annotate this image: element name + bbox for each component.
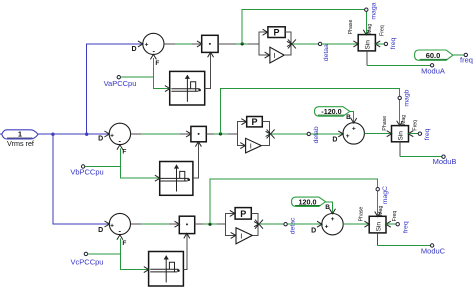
svg-text:+: + — [145, 42, 149, 49]
phase adder row2 (B+D) — [332, 118, 364, 144]
summing junction row1 (D-F) — [131, 33, 164, 67]
svg-text:F: F — [155, 60, 159, 67]
wire (freq stub row1) — [375, 43, 384, 45]
wire (-120.0 to B input) — [350, 111, 354, 121]
node freq row1 — [384, 42, 387, 45]
constant -120.0 (phase shift B) — [315, 107, 350, 117]
wire (bus down to row3 D input) — [53, 134, 109, 224]
wire (phase adder row2 to Sin) — [364, 133, 391, 135]
summing junction row3 (D-F) — [98, 213, 130, 247]
svg-text:detab: detab — [313, 126, 320, 143]
wire (60.0 to freq node) — [453, 54, 464, 56]
Sin block row2 — [387, 121, 414, 142]
svg-text:detac: detac — [289, 217, 296, 234]
svg-text:freq: freq — [460, 56, 473, 65]
wire (multiplier row1 to PI) — [218, 43, 259, 45]
svg-text:freq: freq — [403, 221, 410, 233]
Sin block row3 — [364, 212, 390, 233]
PI controller row1 — [259, 27, 296, 63]
svg-text:D: D — [131, 46, 136, 53]
svg-text:F: F — [122, 240, 126, 247]
node VbPCCpu — [81, 165, 84, 168]
node ModuA — [430, 64, 433, 67]
wire (multiplier row3 to PI) — [195, 223, 226, 225]
node freq (source) — [464, 53, 467, 56]
svg-text:Freq: Freq — [412, 120, 418, 131]
svg-text:Mag: Mag — [401, 115, 407, 125]
wire (120.0 to B input) — [326, 202, 333, 213]
node VcPCCpu — [84, 252, 87, 255]
svg-text:60.0: 60.0 — [426, 51, 441, 60]
limiter block row2 — [155, 162, 193, 196]
svg-text:P: P — [273, 28, 279, 38]
svg-text:+: + — [110, 132, 114, 139]
node VaPCCpu — [117, 76, 120, 79]
wire (VcPCCpu to F input and limiter row3) — [88, 253, 121, 255]
node junction row1 (mag tap) — [241, 42, 244, 45]
wire (source to D input row2, blue bus) — [38, 133, 109, 135]
wire (limiter row3 out up to multiplier) — [183, 234, 186, 269]
svg-text:freq: freq — [424, 128, 431, 140]
svg-text:Sin: Sin — [375, 222, 382, 232]
limiter block row3 — [144, 252, 184, 287]
wire (freq stub row3) — [386, 223, 396, 225]
node maga — [365, 8, 368, 11]
svg-text:Freq: Freq — [380, 25, 386, 36]
svg-text:D: D — [98, 135, 103, 142]
svg-text:Vrms ref: Vrms ref — [7, 139, 34, 148]
wire (Sin row2 output to ModuB) — [399, 142, 401, 157]
wire (sum row1 to multiplier) — [164, 43, 202, 45]
PI controller row3 — [226, 208, 264, 244]
wire (detab to phase adder row2) — [311, 133, 343, 135]
svg-text:+: + — [325, 224, 329, 231]
Sin block row1 — [353, 30, 380, 51]
summing junction row2 (D-F) — [98, 123, 131, 155]
wire (mag feedback row3) — [210, 179, 378, 224]
wire (Sin row1 output to ModuA) — [366, 51, 368, 65]
svg-text:maga: maga — [370, 2, 377, 19]
wire (detac to phase adder row3) — [287, 223, 322, 225]
svg-text:ModuB: ModuB — [433, 157, 457, 166]
svg-text:Phase: Phase — [359, 207, 365, 222]
svg-text:B: B — [346, 114, 351, 121]
wire (left edge stub) — [0, 133, 2, 135]
svg-text:D: D — [98, 227, 103, 234]
wire (sum row2 to multiplier) — [131, 133, 191, 135]
svg-text:VaPCCpu: VaPCCpu — [104, 79, 137, 88]
svg-text:VcPCCpu: VcPCCpu — [71, 258, 104, 267]
wire (limiter row1 out up to multiplier) — [205, 53, 211, 89]
wire (mag feedback row2) — [221, 89, 400, 134]
wire (multiplier row2 to PI) — [206, 133, 237, 135]
node junction row2 (mag tap) — [219, 132, 222, 135]
svg-text:Sin: Sin — [398, 131, 405, 141]
svg-text:I: I — [240, 231, 242, 240]
svg-text:magb: magb — [404, 89, 411, 106]
svg-text:I: I — [274, 51, 276, 60]
svg-text:F: F — [122, 148, 126, 155]
wire (VbPCCpu to F input and limiter row2) — [85, 166, 121, 168]
node detab — [307, 132, 310, 135]
svg-text:+: + — [110, 222, 114, 229]
svg-text:+: + — [346, 133, 350, 140]
wire (VaPCCpu to F input and limiter row1) — [121, 76, 154, 78]
multiplier block row2 — [186, 126, 206, 146]
svg-text:Sin: Sin — [365, 40, 372, 50]
wire (PI row1 to detaa) — [292, 43, 319, 45]
wire (freq stub row2) — [409, 133, 419, 135]
node magb — [398, 96, 401, 99]
constant 60.0 (frequency) — [415, 50, 454, 60]
svg-text:+: + — [331, 216, 335, 223]
node detac — [284, 223, 287, 226]
PI controller row2 — [237, 117, 274, 153]
node freq row3 — [396, 223, 399, 226]
node magC — [376, 188, 379, 191]
wire (phase adder row3 to Sin) — [343, 223, 369, 225]
multiplier block row1 — [197, 35, 218, 57]
multiplier block row3 — [175, 216, 195, 238]
node ModuC — [430, 244, 433, 247]
svg-text:1: 1 — [18, 130, 22, 139]
wire (detaa to Sin row1 phase) — [322, 43, 358, 45]
limiter block row1 — [165, 71, 205, 105]
node detaa — [318, 42, 321, 45]
svg-text:+: + — [352, 125, 356, 132]
svg-text:VbPCCpu: VbPCCpu — [70, 168, 103, 177]
svg-text:P: P — [240, 209, 246, 219]
wire (Sin row3 output to ModuC) — [377, 233, 379, 246]
svg-text:Freq: Freq — [392, 211, 398, 222]
node junction row3 (mag tap) — [208, 223, 211, 226]
phase adder row3 (B+D) — [311, 209, 343, 235]
node junction (bus to row1) — [85, 133, 88, 136]
wire (mag feedback row1) — [242, 10, 366, 44]
constant 120.0 (phase shift C) — [292, 197, 326, 207]
svg-text:ModuC: ModuC — [421, 247, 446, 256]
wire (PI row3 to detac) — [259, 223, 284, 225]
svg-text:freq: freq — [390, 37, 397, 49]
svg-text:D: D — [332, 137, 337, 144]
wire (PI row2 to detab) — [271, 133, 308, 135]
wire (bus up to row1 D input) — [87, 44, 143, 134]
wire (sum row3 to multiplier) — [131, 223, 180, 225]
svg-text:magC: magC — [382, 186, 389, 204]
svg-text:detaa: detaa — [323, 44, 330, 61]
svg-text:ModuA: ModuA — [421, 67, 445, 76]
svg-text:I: I — [250, 141, 252, 150]
svg-text:Phase: Phase — [382, 116, 388, 131]
node freq row2 — [418, 132, 421, 135]
svg-text:D: D — [311, 227, 316, 234]
node junction (bus to row3) — [51, 133, 54, 136]
svg-text:B: B — [325, 204, 330, 211]
wire (limiter row2 out up to multiplier) — [193, 142, 199, 178]
svg-text:Phase: Phase — [348, 19, 354, 34]
svg-text:P: P — [251, 117, 257, 127]
source block Vrms ref (constant 1) — [2, 130, 38, 148]
node ModuB — [442, 155, 445, 158]
